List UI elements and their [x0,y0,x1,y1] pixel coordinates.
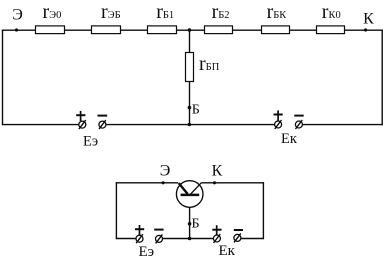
svg-text:К: К [212,163,223,180]
node Э dot bottom circuit [162,181,165,184]
svg-text:Еэ: Еэ [83,134,98,150]
svg-text:Э: Э [12,7,23,24]
wire top circuit: right vertical [381,30,383,126]
svg-text:Еэ: Еэ [139,244,155,260]
node К dot bottom circuit [213,181,216,184]
terminal + of Ек source bottom circuit [212,225,221,243]
node Б dot top circuit [188,106,192,110]
wire middle vertical branch [189,30,191,124]
transistor emitter lead with arrow [179,183,188,194]
node junction dot on rail bottom circuit [188,237,192,241]
wire top circuit outline: left vertical [2,30,4,126]
wire bottom rail segment left [2,124,79,126]
wire bottom circuit rail segment right [241,238,264,240]
svg-text:Б: Б [192,217,200,232]
terminal + of Еэ source bottom circuit [135,225,144,243]
resistor rБ2 [205,26,233,34]
svg-text:Э: Э [160,163,171,180]
wire bottom circuit: left vertical [115,182,117,239]
node junction dot on bottom rail top circuit [188,123,192,127]
transistor VT body circle [176,181,203,208]
resistor rК0 [317,26,345,34]
svg-text:Ек: Ек [281,131,298,147]
transistor collector lead [190,183,201,195]
terminal + of Еэ source top circuit [76,111,86,129]
resistor rЭ0 [36,26,65,34]
wire bottom circuit: top wire left of transistor [116,182,178,184]
terminal + of Ек source top circuit [274,110,283,129]
resistor rБП vertical [186,53,194,82]
svg-text:Б: Б [192,103,200,118]
svg-text:Ек: Ек [219,243,236,259]
wire base lead of transistor down to rail [189,196,191,239]
resistor rЭБ [92,26,121,34]
terminal - of Ек source bottom circuit [234,230,243,242]
wire bottom rail segment right [302,124,382,126]
svg-text:К: К [363,10,374,27]
node junction dot between rБ1 and rБ2 [188,28,192,32]
node Э dot top circuit [15,28,18,31]
node К dot top circuit [364,28,367,31]
wire bottom circuit: top wire right of transistor [201,182,264,184]
wire bottom circuit rail segment middle [162,238,213,240]
transistor base bar [181,194,200,197]
wire bottom circuit: right vertical [262,182,264,239]
node Б dot bottom circuit [188,222,192,226]
wire top circuit: top horizontal [2,29,383,31]
wire bottom rail segment middle [106,124,275,126]
resistor rБ1 [148,26,177,34]
wire bottom circuit rail segment left [116,238,136,240]
terminal - of Ек source top circuit [294,116,303,129]
terminal - of Еэ source top circuit [98,116,108,130]
resistor rБК [262,26,290,34]
terminal - of Еэ source bottom circuit [154,230,163,244]
